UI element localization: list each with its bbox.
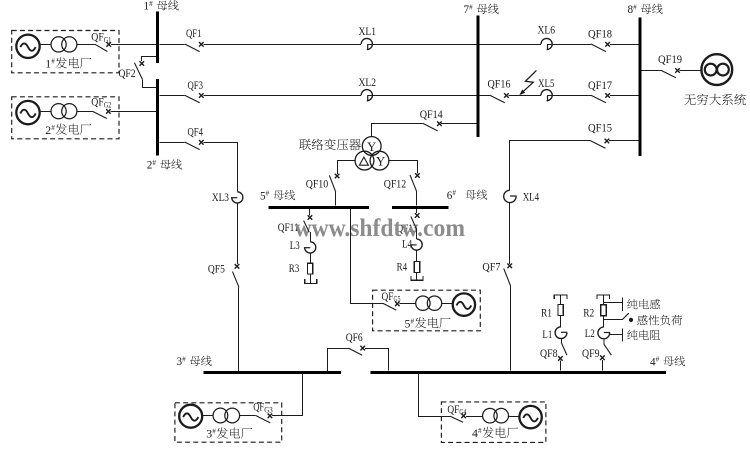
- bus 6#母线 (horizontal busbar): [392, 206, 448, 209]
- resistor R3: [308, 263, 313, 274]
- svg-text:QF17: QF17: [588, 80, 612, 92]
- svg-text:G5: G5: [394, 295, 401, 304]
- breaker QF10: [329, 174, 339, 192]
- label QF19: [658, 54, 682, 66]
- wire XL6-QF18: [548, 44, 592, 46]
- bus 5#母线 (horizontal busbar): [269, 206, 370, 209]
- wire QF8-bus4: [560, 361, 562, 371]
- wire QF10-bus5: [335, 192, 337, 206]
- label 纯电阻: [627, 330, 660, 340]
- wire QF19-infinite system: [680, 70, 702, 72]
- svg-text:XL5: XL5: [538, 78, 555, 90]
- breaker QF7: [504, 264, 512, 287]
- wire L2-QF9: [603, 339, 605, 345]
- wire QF2-bus2: [143, 80, 157, 88]
- label QF12: [384, 178, 407, 190]
- wire L1-QF8: [561, 339, 563, 343]
- svg-text:QF19: QF19: [658, 54, 682, 66]
- label 3#母线: [177, 355, 212, 368]
- svg-text:Y: Y: [376, 154, 385, 168]
- wire QF3-XL2: [204, 95, 362, 97]
- wire T4-G4: [509, 416, 520, 418]
- wire bus2-QF3: [159, 95, 184, 97]
- svg-text:#: #: [51, 58, 55, 66]
- svg-text:R2: R2: [583, 307, 594, 319]
- wire QF5-bus3: [238, 287, 240, 371]
- label QF7: [482, 262, 500, 274]
- line reactor XL1: [361, 38, 372, 49]
- wire terminal-R1: [560, 295, 562, 305]
- dashed box 5#发电厂: [373, 290, 481, 331]
- terminal (R1 top): [554, 295, 567, 299]
- svg-text:R3: R3: [289, 263, 300, 275]
- winding symbol delta (bottom-left): [359, 157, 368, 165]
- wire QF13-L4: [416, 229, 418, 239]
- wire QF14-transformer: [372, 124, 423, 137]
- wire QFG5-T5: [400, 303, 416, 305]
- ground (R3): [305, 279, 317, 283]
- label R3: [289, 263, 300, 275]
- label 联络变压器: [299, 139, 361, 151]
- breaker QFG3: [256, 414, 273, 423]
- svg-text:L3: L3: [290, 240, 300, 252]
- label QF9: [582, 348, 600, 360]
- wire R2-L2: [603, 316, 605, 327]
- label QF1: [186, 28, 202, 40]
- fault lightning bolt: [519, 70, 536, 95]
- generator G2: [16, 101, 39, 124]
- breaker QF5: [233, 264, 240, 287]
- generator G1: [16, 35, 39, 58]
- breaker QF16: [490, 93, 509, 103]
- label 2#母线: [147, 159, 182, 172]
- bus 8#母线 (vertical busbar): [638, 18, 641, 157]
- breaker QF4: [185, 140, 204, 150]
- transformer T3: [213, 408, 240, 423]
- svg-text:L2: L2: [585, 328, 595, 340]
- breaker QFG4: [450, 414, 466, 423]
- svg-text:QF7: QF7: [482, 262, 500, 274]
- label QFG5: [382, 291, 401, 304]
- label 6#母线: [447, 189, 487, 202]
- svg-text:QF18: QF18: [588, 28, 612, 40]
- label 2#发电厂: [45, 123, 91, 137]
- bus 3#母线 (horizontal busbar): [204, 371, 341, 374]
- ground (R4): [411, 276, 423, 280]
- label QF4: [188, 126, 204, 138]
- transformer T4: [483, 408, 509, 423]
- svg-text:XL3: XL3: [212, 192, 229, 204]
- wire R1-L1: [560, 316, 562, 327]
- svg-text:G1: G1: [104, 35, 112, 44]
- resistor R4: [414, 262, 419, 273]
- generator G4: [519, 406, 541, 428]
- svg-text:#: #: [152, 159, 156, 167]
- svg-text:#: #: [51, 124, 55, 132]
- wire bus5-QFG5 elbow: [351, 209, 384, 303]
- label XL1: [359, 26, 377, 38]
- line reactor XL5: [541, 90, 552, 101]
- label 1#发电厂: [45, 57, 91, 71]
- wire QF9-bus4: [602, 360, 604, 370]
- dashed box 2#发电厂: [12, 97, 119, 139]
- svg-text:L4: L4: [402, 238, 412, 250]
- breaker QF13: [411, 213, 420, 229]
- wire QFG3-T3: [240, 415, 256, 417]
- svg-text:QF6: QF6: [346, 332, 363, 344]
- label XL3: [212, 192, 229, 204]
- breaker QFG5: [383, 302, 399, 311]
- generator G5: [453, 293, 475, 315]
- label L2: [585, 328, 595, 340]
- svg-text:XL2: XL2: [359, 77, 377, 89]
- label QF3: [188, 80, 204, 92]
- svg-text:QF4: QF4: [188, 126, 204, 138]
- svg-text:#: #: [469, 3, 473, 11]
- label QFG3: [253, 402, 273, 415]
- dashed box 4#发电厂: [441, 402, 546, 443]
- resistor R1: [558, 305, 563, 316]
- svg-text:R1: R1: [541, 308, 552, 320]
- svg-text:QF8: QF8: [540, 348, 558, 360]
- watermark www.shfdtw.com: [295, 215, 466, 242]
- svg-text:XL1: XL1: [359, 26, 377, 38]
- label R4: [397, 261, 408, 273]
- wire QF6-bus4: [365, 349, 389, 371]
- label L1: [542, 329, 552, 341]
- wire bus4-QFG4 elbow: [419, 374, 450, 417]
- breaker QFG2: [92, 109, 110, 118]
- wire bus7-QF14: [441, 123, 476, 125]
- svg-text:XL4: XL4: [523, 191, 540, 203]
- svg-text:#: #: [182, 355, 186, 363]
- inductor L2: [598, 327, 610, 339]
- breaker QF3: [185, 93, 204, 103]
- breaker QF14: [423, 121, 442, 130]
- svg-text:#: #: [149, 0, 153, 8]
- svg-text:QF5: QF5: [208, 263, 225, 275]
- wire XL3-QF5: [237, 203, 239, 264]
- label QF8: [540, 348, 558, 360]
- label XL5: [538, 78, 555, 90]
- svg-text:L1: L1: [542, 329, 552, 341]
- bus 4#母线 (horizontal busbar): [371, 371, 666, 374]
- breaker QF2: [134, 61, 144, 80]
- wire QF7-bus4: [510, 286, 512, 370]
- bus 2#母线 (vertical busbar): [156, 79, 159, 156]
- transformer T2: [51, 104, 77, 119]
- wire QF4-XL3 elbow: [204, 143, 238, 192]
- svg-text:#: #: [411, 317, 415, 325]
- label QFG1: [91, 32, 111, 45]
- breaker QF17: [591, 93, 610, 103]
- inductor L4: [410, 239, 422, 250]
- label 4#母线: [650, 356, 685, 369]
- wire T5-G5: [442, 303, 453, 305]
- wire QF16-XL5: [508, 95, 541, 97]
- generator G3: [179, 405, 202, 428]
- winding symbol Y (bottom-right): [376, 154, 385, 168]
- winding symbol Y (top): [367, 140, 376, 154]
- label XL2: [359, 77, 377, 89]
- label R2: [583, 307, 594, 319]
- svg-text:QF9: QF9: [582, 348, 600, 360]
- wire QFG1-bus1: [111, 44, 156, 46]
- label 7#母线: [464, 3, 499, 16]
- svg-text:R4: R4: [397, 261, 408, 273]
- breaker QF11: [304, 215, 313, 232]
- label QF16: [488, 79, 511, 91]
- label 8#母线: [628, 3, 663, 16]
- wire bus5-QF11: [309, 209, 311, 215]
- inductor L3: [304, 242, 316, 253]
- wire bus7-QF16: [480, 95, 490, 97]
- svg-text:#: #: [266, 190, 270, 198]
- wire transformer-QF10: [338, 161, 356, 174]
- wire QF1-XL1: [204, 44, 362, 46]
- svg-text:#: #: [633, 3, 637, 11]
- wire bus3-QF6: [328, 349, 349, 372]
- svg-text:QF12: QF12: [384, 178, 407, 190]
- label QFG4: [447, 404, 466, 417]
- label 5#发电厂: [405, 316, 451, 330]
- wire bus8-QF19: [642, 70, 661, 72]
- wire bus3-QFG3 elbow: [272, 374, 303, 415]
- label 3#发电厂: [206, 427, 252, 441]
- label QF6: [346, 332, 363, 344]
- label QF14: [420, 109, 443, 121]
- infinite bus symbol: [701, 54, 732, 85]
- svg-text:www.shfdtw.com: www.shfdtw.com: [295, 215, 466, 242]
- svg-text:QF1: QF1: [186, 28, 202, 40]
- label R1: [541, 308, 552, 320]
- wire QF12-bus6: [416, 191, 418, 205]
- breaker QF18: [591, 42, 610, 52]
- wire XL4-QF7: [509, 203, 511, 264]
- svg-text:QF: QF: [447, 404, 459, 416]
- svg-text:QF10: QF10: [306, 178, 329, 190]
- breaker QF8: [558, 342, 567, 360]
- svg-text:#: #: [452, 189, 456, 197]
- resistor R2: [601, 305, 606, 316]
- label QF5: [208, 263, 225, 275]
- svg-text:QF3: QF3: [188, 80, 204, 92]
- svg-text:XL6: XL6: [538, 25, 556, 37]
- wire T1-QFG1: [77, 44, 95, 46]
- line reactor XL4: [504, 190, 517, 202]
- line reactor XL3: [231, 192, 243, 203]
- wire QF18-bus8: [610, 44, 639, 46]
- label XL4: [523, 191, 540, 203]
- label QFG2: [91, 97, 111, 110]
- wire T3-G3: [202, 415, 213, 417]
- svg-text:QF14: QF14: [420, 109, 443, 121]
- wire XL2-bus7: [368, 95, 477, 97]
- svg-text:G4: G4: [459, 408, 466, 417]
- breaker QF9: [600, 344, 611, 360]
- svg-text:#: #: [478, 427, 482, 435]
- label 1#母线: [144, 0, 179, 13]
- three-winding transformer U1: [355, 137, 389, 170]
- terminal (R2 top): [597, 295, 610, 299]
- wire bus1-QF1: [159, 44, 184, 46]
- pointer 感性负荷: [604, 313, 634, 322]
- wire bus1-QF2: [142, 57, 157, 62]
- label L4: [402, 238, 412, 250]
- wire QF15-XL4 elbow: [510, 141, 591, 191]
- label QF18: [588, 28, 612, 40]
- transformer T1: [51, 37, 77, 52]
- svg-text:G3: G3: [264, 405, 273, 414]
- svg-text:#: #: [656, 356, 660, 364]
- bus 1#母线 (vertical busbar): [156, 12, 159, 64]
- wire QFG2-bus2: [111, 111, 157, 113]
- line reactor XL2: [361, 90, 372, 101]
- svg-text:QF: QF: [91, 32, 104, 44]
- label 纯电感: [627, 299, 660, 309]
- label QF17: [588, 80, 612, 92]
- label QF15: [588, 122, 612, 134]
- svg-text:QF15: QF15: [588, 122, 612, 134]
- breaker QFG1: [95, 42, 111, 51]
- wire QF17-bus8: [610, 95, 639, 97]
- wire XL5-QF17: [548, 95, 592, 97]
- breaker QF6: [348, 346, 365, 355]
- wire R4-ground: [416, 273, 418, 281]
- label QF11: [278, 222, 299, 234]
- transformer T5: [416, 296, 442, 310]
- bus 7#母线 (vertical busbar): [476, 16, 479, 138]
- wire T2-QFG2: [77, 111, 93, 113]
- wire XL1-bus7: [368, 44, 477, 46]
- wire transformer-QF12: [389, 161, 418, 174]
- svg-text:QF16: QF16: [488, 79, 511, 91]
- dashed box 1#发电厂: [12, 31, 119, 73]
- wire terminal-R2: [603, 295, 605, 305]
- wire bus2-QF4: [159, 142, 184, 144]
- wire QFG4-T4: [466, 416, 483, 418]
- label 5#母线: [260, 190, 295, 203]
- label XL6: [538, 25, 556, 37]
- breaker QF12: [410, 173, 420, 191]
- svg-text:QF: QF: [91, 97, 104, 109]
- line reactor XL6: [541, 38, 552, 49]
- breaker QF1: [185, 42, 204, 52]
- wire L3-R3: [310, 253, 312, 263]
- dashed box 3#发电厂: [175, 403, 282, 442]
- label 4#发电厂: [472, 426, 518, 440]
- bracket 纯电感: [603, 298, 622, 311]
- inductor L1: [555, 327, 567, 339]
- svg-text:QF2: QF2: [119, 68, 136, 80]
- wire bus8-QF15: [609, 140, 638, 142]
- wire bus6-QF13: [416, 209, 418, 213]
- breaker QF15: [591, 139, 610, 149]
- wire R3-ground: [310, 274, 312, 284]
- label QF10: [306, 178, 329, 190]
- svg-text:QF: QF: [253, 402, 264, 414]
- wire G2-T2: [40, 111, 51, 113]
- breaker QF19: [661, 68, 680, 78]
- wire G1-T1: [40, 44, 51, 46]
- svg-text:#: #: [212, 428, 216, 436]
- label 无穷大系统: [684, 94, 746, 106]
- wire QF11-L3: [310, 232, 312, 241]
- svg-text:G2: G2: [104, 100, 112, 109]
- label QF13: [397, 223, 418, 235]
- label QF2: [119, 68, 136, 80]
- svg-text:QF: QF: [382, 291, 394, 303]
- label 感性负荷: [637, 315, 682, 326]
- bracket 纯电阻: [609, 328, 623, 341]
- label L3: [290, 240, 300, 252]
- wire bus7-XL6: [480, 44, 541, 46]
- svg-text:Y: Y: [367, 140, 376, 154]
- wire L4-R4: [416, 250, 418, 261]
